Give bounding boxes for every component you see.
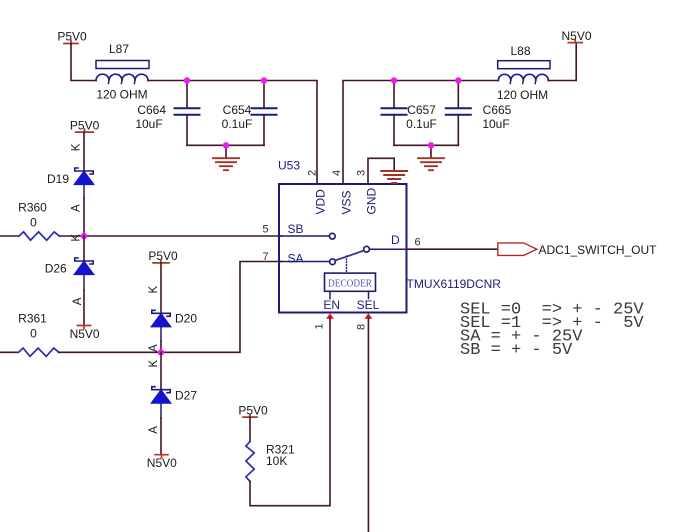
diode D20 [151,310,197,341]
svg-text:120 OHM: 120 OHM [96,88,147,102]
wire ground stem right [430,145,432,157]
wire P5V0 to L87 [71,44,96,81]
wire junction to D26 [83,236,85,261]
svg-text:N5V0: N5V0 [561,29,591,43]
ground GND pin [381,171,407,183]
svg-text:P5V0: P5V0 [57,30,87,44]
ground right caps [418,158,444,170]
wire ground stem left [225,145,227,157]
svg-text:A: A [72,297,84,305]
pin line SA [279,261,329,263]
inductor L88 [497,44,550,102]
svg-text:P5V0: P5V0 [238,403,268,417]
svg-text:0: 0 [30,216,37,230]
svg-text:K: K [148,286,160,294]
ground left caps [213,158,239,170]
junction dot SB node [81,233,87,239]
svg-text:VDD: VDD [314,189,328,215]
svg-text:R361: R361 [18,312,47,326]
note text [460,300,644,360]
svg-text:D26: D26 [45,262,67,276]
svg-text:C654: C654 [223,103,252,117]
resistor R321 [246,441,295,481]
power flag N5V0 top-right [561,29,591,43]
wire bottom rail left caps [187,144,264,146]
svg-text:3: 3 [356,170,368,176]
svg-text:R360: R360 [18,201,47,215]
svg-text:SB: SB [288,222,304,236]
dotted link blade to decoder [346,256,348,273]
junction dots right rail [391,77,397,83]
wire P5V0 to D20 [160,263,162,313]
resistor R361 [0,312,161,357]
svg-text:L87: L87 [109,42,129,56]
svg-text:2: 2 [307,170,319,176]
inductor L87 [96,42,149,102]
svg-text:D20: D20 [175,312,197,326]
switch contact SA [330,259,336,265]
switch contact D [364,246,370,252]
wire D27 anode to N5V0 [160,418,162,455]
wire GND pin bracket [368,158,394,184]
svg-text:SB = + - 5V: SB = + - 5V [460,341,573,360]
svg-text:5: 5 [262,224,268,236]
power flag N5V0 below D27 [147,455,177,470]
junction dot SA node [158,349,164,355]
svg-text:SEL: SEL [357,298,380,312]
capacitor C654 [222,81,277,146]
power flag P5V0 above R321 [238,403,268,417]
decoder leg SEL [368,291,370,298]
svg-text:10uF: 10uF [135,117,162,131]
svg-text:N5V0: N5V0 [147,456,177,470]
diode D26 [45,258,94,290]
diode D19 [47,168,94,198]
svg-text:1: 1 [314,323,326,329]
svg-text:C657: C657 [407,103,436,117]
svg-text:6: 6 [414,237,420,249]
wire R321 to EN [250,318,330,506]
svg-text:P5V0: P5V0 [148,249,178,263]
decoder leg EN [329,291,331,298]
svg-text:A: A [148,426,160,434]
svg-text:DECODER: DECODER [328,277,373,289]
svg-text:K: K [70,143,82,151]
svg-text:8: 8 [356,324,368,330]
capacitor C664 [135,81,199,146]
wire P5V0 to R321 [249,417,251,441]
svg-text:N5V0: N5V0 [70,327,100,341]
wire L88 to N5V0 [548,43,576,81]
svg-text:A: A [70,204,82,212]
svg-text:VSS: VSS [340,190,354,214]
resistor R360 [0,201,84,241]
svg-text:L88: L88 [510,44,530,58]
svg-text:K: K [148,360,160,368]
svg-text:C665: C665 [483,103,512,117]
svg-text:GND: GND [365,188,379,215]
svg-text:D27: D27 [175,389,197,403]
IC U53 box [278,159,407,313]
wire SEL down [367,318,369,532]
svg-text:10K: 10K [266,454,287,468]
wire D output [407,248,499,250]
svg-text:D19: D19 [47,172,69,186]
power flag P5V0 top-left [57,30,87,44]
svg-text:ADC1_SWITCH_OUT: ADC1_SWITCH_OUT [539,243,658,257]
junction dots left rail [184,77,190,83]
svg-text:0.1uF: 0.1uF [406,117,437,131]
wire L87 to VDD rail [148,81,317,185]
connector ADC1_SWITCH_OUT [498,243,657,257]
switch blade SA to D [335,251,364,261]
wire D26 anode to N5V0 [83,290,85,326]
wire D20 anode to junction [160,341,162,352]
wire VSS rail [343,81,498,185]
svg-text:0: 0 [30,327,37,341]
junction dot right ground [428,142,434,148]
decoder box [325,273,376,291]
switch contact SB [329,233,335,239]
junction dot left ground [223,142,229,148]
wire P5V0 to D19 [83,132,85,171]
svg-text:EN: EN [323,298,340,312]
svg-text:K: K [70,234,82,242]
svg-text:U53: U53 [278,159,300,173]
pin line D [370,248,407,250]
svg-text:D: D [391,233,400,247]
svg-text:10uF: 10uF [482,117,509,131]
svg-text:SA: SA [288,252,304,266]
arrow into EN pin [326,313,334,319]
power flag N5V0 below D26 [70,326,100,341]
capacitor C657 [382,81,437,146]
svg-text:0.1uF: 0.1uF [222,117,253,131]
power flag P5V0 above D20 [148,249,178,263]
wire junction to SB pin [84,235,282,237]
wire junction to SA pin [161,262,282,353]
wire bottom rail right caps [394,144,458,146]
arrow into SEL pin [365,313,373,319]
wire junction to D27 [160,352,162,389]
svg-text:C664: C664 [137,103,166,117]
svg-text:4: 4 [331,170,343,176]
capacitor C665 [446,81,512,146]
wire D19 anode to junction [83,198,85,236]
pin line SB [279,235,329,237]
power flag P5V0 above D19 [70,118,100,132]
diode D27 [151,387,197,418]
svg-text:TMUX6119DCNR: TMUX6119DCNR [407,277,502,291]
svg-text:120 OHM: 120 OHM [497,88,548,102]
